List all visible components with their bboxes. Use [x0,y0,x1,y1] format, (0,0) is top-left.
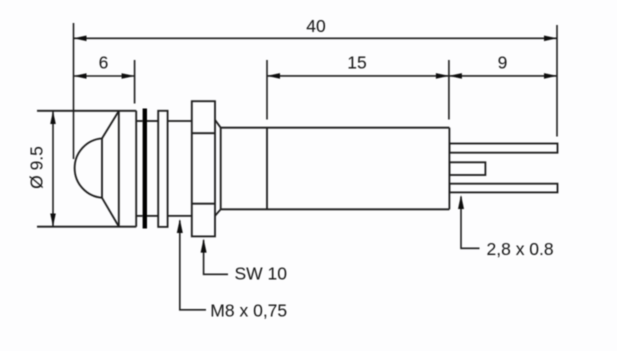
svg-text:6: 6 [99,52,109,72]
svg-text:2,8 x 0.8: 2,8 x 0.8 [487,239,554,259]
svg-text:M8 x 0,75: M8 x 0,75 [210,301,287,321]
svg-text:9: 9 [498,52,508,72]
svg-text:Ø 9.5: Ø 9.5 [27,146,47,189]
svg-text:40: 40 [306,16,326,36]
svg-text:15: 15 [347,52,366,72]
svg-text:SW 10: SW 10 [235,264,288,284]
